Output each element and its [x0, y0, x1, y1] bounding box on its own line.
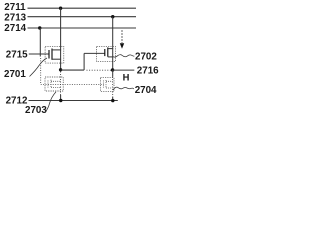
- wire dotted left source segment: [60, 72, 62, 96]
- transistor Q 2715 dashed box: [45, 46, 64, 63]
- svg-text:2703: 2703: [25, 105, 47, 116]
- transistor phantom 2704 source arm: [106, 87, 113, 89]
- wire bus 2712: [29, 100, 118, 102]
- node dot right mid junction: [111, 68, 114, 71]
- wire dotted right source segment: [112, 77, 114, 97]
- svg-text:2715: 2715: [6, 50, 28, 61]
- wire vertical gate stub from bus 2714: [39, 28, 41, 57]
- node dot left mid junction: [59, 68, 62, 71]
- wire solid right stub to bus 2712: [112, 97, 114, 101]
- transistor phantom 2703 dashed box: [45, 77, 63, 91]
- wire right stub below junction: [112, 70, 114, 77]
- wire corner rise to right gate: [83, 53, 85, 70]
- transistor Q 2702 channel bar: [107, 47, 109, 56]
- wire vertical right drain from bus 2713: [112, 17, 114, 70]
- svg-text:2701: 2701: [4, 69, 26, 80]
- svg-text:2714: 2714: [4, 23, 26, 34]
- transistor Q 2702 dashed box: [97, 46, 116, 61]
- dashed current arrow head: [120, 43, 124, 48]
- junction dot on bus 2713: [111, 15, 114, 18]
- transistor phantom 2703 channel bar: [50, 80, 52, 89]
- svg-text:2711: 2711: [4, 2, 26, 13]
- wire bus 2714: [28, 27, 137, 29]
- dashed current arrow shaft: [121, 30, 123, 43]
- leader curve 2703: [46, 92, 57, 112]
- transistor Q 2715 channel bar: [51, 49, 53, 60]
- transistor Q 2702 drain arm: [108, 48, 113, 50]
- wire dotted gate bus to phantom gates: [41, 83, 104, 85]
- leader curve 2701: [30, 58, 48, 77]
- wire right gate horizontal: [84, 52, 105, 54]
- wire node H to label 2716: [113, 69, 135, 71]
- transistor Q 2715 gate bar: [48, 50, 50, 59]
- junction dot bus 2712 left: [59, 99, 62, 102]
- junction dot on bus 2714: [38, 26, 41, 29]
- svg-text:2716: 2716: [137, 65, 159, 76]
- wire node line left: [61, 69, 85, 71]
- wire bus 2711: [28, 7, 137, 9]
- transistor Q 2715 drain arm: [52, 49, 61, 51]
- junction dot bus 2712 right: [111, 99, 114, 102]
- transistor Q 2702 source arm: [108, 56, 113, 58]
- wire bus 2713: [28, 16, 137, 18]
- junction dot on bus 2711: [59, 7, 62, 10]
- transistor phantom 2704 gate bar: [103, 81, 105, 88]
- svg-text:2704: 2704: [135, 85, 157, 96]
- transistor Q 2702 gate bar: [104, 49, 106, 56]
- transistor phantom 2703 drain arm: [51, 80, 61, 82]
- transistor phantom 2704 channel bar: [105, 80, 107, 88]
- wire vertical left drain from bus 2711: [60, 8, 62, 70]
- wire dotted gate vertical continuation: [40, 58, 42, 84]
- wire dotted node segment: [87, 69, 112, 71]
- transistor Q 2715 source arm: [52, 58, 61, 60]
- leader squiggle 2702: [113, 55, 134, 57]
- svg-text:H: H: [123, 72, 130, 83]
- wire solid left stub to bus 2712: [60, 95, 62, 101]
- transistor phantom 2704 drain arm: [106, 80, 113, 82]
- wire gate leader 2715: [29, 53, 49, 55]
- transistor phantom 2703 source arm: [51, 87, 61, 89]
- transistor phantom 2704 dashed box: [100, 78, 114, 92]
- svg-text:2702: 2702: [135, 52, 157, 63]
- transistor phantom 2703 gate bar: [47, 81, 49, 88]
- leader squiggle 2704: [113, 87, 134, 90]
